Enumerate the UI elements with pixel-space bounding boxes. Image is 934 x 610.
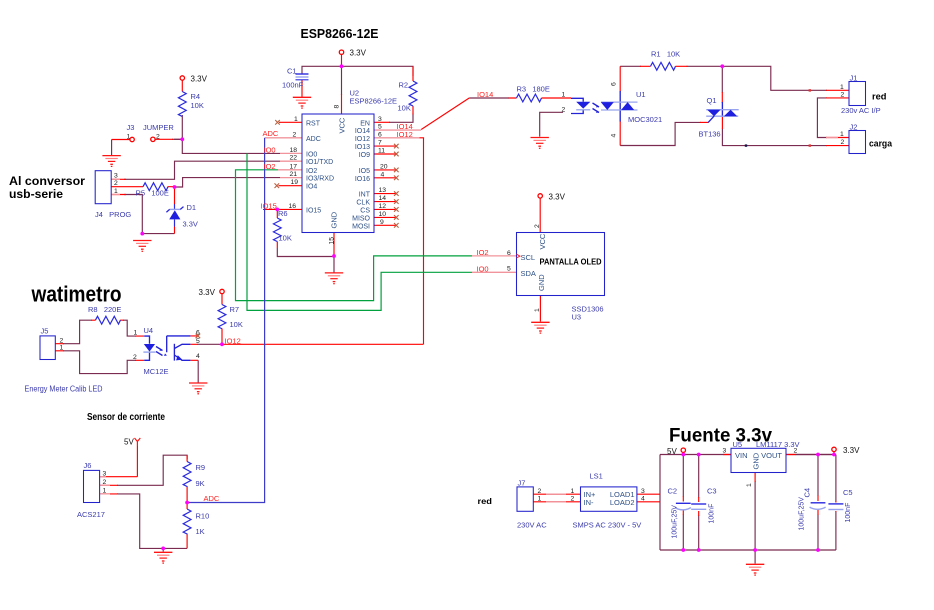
svg-text:IO1/TXD: IO1/TXD xyxy=(306,159,333,166)
svg-text:IO15: IO15 xyxy=(306,207,321,214)
svg-text:100uF,25V: 100uF,25V xyxy=(799,497,806,531)
svg-text:5: 5 xyxy=(378,124,382,131)
svg-text:3.3V: 3.3V xyxy=(843,446,860,455)
svg-text:19: 19 xyxy=(291,179,299,186)
svg-text:1K: 1K xyxy=(196,527,205,536)
svg-text:R10: R10 xyxy=(196,512,210,521)
svg-text:IO2: IO2 xyxy=(264,162,276,171)
svg-text:14: 14 xyxy=(379,195,387,202)
svg-text:J4 PROG: J4 PROG xyxy=(95,210,131,219)
svg-text:3.3V: 3.3V xyxy=(183,220,198,229)
svg-text:4: 4 xyxy=(611,134,618,138)
svg-text:IN-: IN- xyxy=(584,498,595,507)
svg-text:1: 1 xyxy=(114,188,118,195)
svg-text:100nF: 100nF xyxy=(845,503,852,523)
svg-text:MOSI: MOSI xyxy=(352,223,370,230)
svg-text:red: red xyxy=(872,92,887,103)
svg-text:R7: R7 xyxy=(230,305,240,314)
svg-text:R3 180E: R3 180E xyxy=(517,85,550,94)
svg-text:J6: J6 xyxy=(84,461,92,470)
svg-text:ADC: ADC xyxy=(263,129,279,138)
svg-text:VOUT: VOUT xyxy=(761,451,782,460)
svg-text:C3: C3 xyxy=(707,487,717,496)
svg-text:2: 2 xyxy=(841,92,845,99)
svg-text:2: 2 xyxy=(293,131,297,138)
svg-text:11: 11 xyxy=(378,148,385,155)
svg-text:6: 6 xyxy=(378,131,382,138)
svg-text:9: 9 xyxy=(380,219,384,226)
svg-text:10K: 10K xyxy=(191,101,204,110)
svg-text:IO3/RXD: IO3/RXD xyxy=(306,176,334,183)
svg-text:watimetro: watimetro xyxy=(31,282,122,307)
svg-text:3: 3 xyxy=(114,173,118,180)
svg-text:2: 2 xyxy=(103,479,107,486)
svg-text:IO12: IO12 xyxy=(397,130,413,139)
svg-text:Al conversor: Al conversor xyxy=(9,174,85,188)
svg-text:U4: U4 xyxy=(144,326,154,335)
svg-text:2: 2 xyxy=(571,495,575,502)
svg-text:CLK: CLK xyxy=(356,200,370,207)
svg-text:1: 1 xyxy=(746,483,753,487)
svg-text:IO9: IO9 xyxy=(359,152,370,159)
svg-text:U3: U3 xyxy=(572,313,582,322)
svg-text:IO12: IO12 xyxy=(225,336,241,345)
svg-text:2: 2 xyxy=(60,337,64,344)
svg-text:6: 6 xyxy=(196,329,200,336)
svg-text:10K: 10K xyxy=(279,234,292,243)
svg-text:R5 100E: R5 100E xyxy=(136,189,169,198)
svg-text:10K: 10K xyxy=(398,104,411,113)
svg-text:1: 1 xyxy=(840,131,844,138)
svg-text:IO15: IO15 xyxy=(261,202,277,211)
svg-text:1: 1 xyxy=(562,91,566,98)
svg-text:Energy Meter Calib LED: Energy Meter Calib LED xyxy=(25,385,103,394)
svg-text:J1: J1 xyxy=(850,74,858,83)
svg-text:1: 1 xyxy=(60,345,64,352)
svg-text:2: 2 xyxy=(133,354,137,361)
svg-text:230V AC: 230V AC xyxy=(517,521,547,530)
svg-text:CS: CS xyxy=(360,207,370,214)
svg-text:ADC: ADC xyxy=(306,136,321,143)
svg-text:2: 2 xyxy=(114,180,118,187)
svg-text:MOC3021: MOC3021 xyxy=(628,115,662,124)
svg-text:carga: carga xyxy=(869,139,893,150)
svg-text:2: 2 xyxy=(841,139,845,146)
svg-text:8: 8 xyxy=(334,105,341,109)
svg-text:GND: GND xyxy=(537,274,546,291)
svg-text:RST: RST xyxy=(306,120,321,127)
svg-text:C1: C1 xyxy=(287,67,297,76)
svg-text:IO13: IO13 xyxy=(355,144,370,151)
svg-text:R6: R6 xyxy=(278,209,288,218)
svg-text:2: 2 xyxy=(562,106,566,113)
svg-text:IO4: IO4 xyxy=(306,184,317,191)
svg-text:6: 6 xyxy=(507,250,511,257)
svg-text:1: 1 xyxy=(840,84,844,91)
svg-text:IO0: IO0 xyxy=(477,264,489,273)
svg-text:100nF: 100nF xyxy=(282,81,304,90)
svg-text:Sensor de corriente: Sensor de corriente xyxy=(87,411,165,423)
svg-text:C4: C4 xyxy=(803,488,812,498)
svg-text:7: 7 xyxy=(378,140,382,147)
svg-text:4: 4 xyxy=(196,353,200,360)
svg-text:ESP8266-12E: ESP8266-12E xyxy=(350,97,398,106)
svg-text:PANTALLA OLED: PANTALLA OLED xyxy=(540,256,602,266)
svg-text:1: 1 xyxy=(127,133,131,140)
svg-text:3.3V: 3.3V xyxy=(199,288,216,297)
svg-text:VCC: VCC xyxy=(538,233,547,249)
svg-text:230v AC I/P: 230v AC I/P xyxy=(841,106,881,115)
svg-text:J5: J5 xyxy=(41,327,49,336)
svg-text:ESP8266-12E: ESP8266-12E xyxy=(301,27,379,41)
svg-text:1: 1 xyxy=(134,330,138,337)
svg-text:D1: D1 xyxy=(187,203,197,212)
svg-text:JUMPER: JUMPER xyxy=(143,123,174,132)
svg-text:IO16: IO16 xyxy=(355,176,370,183)
svg-text:18: 18 xyxy=(290,147,298,154)
svg-text:R9: R9 xyxy=(196,463,206,472)
svg-text:SCL: SCL xyxy=(521,253,536,262)
svg-text:5: 5 xyxy=(196,338,200,345)
svg-text:2: 2 xyxy=(534,224,541,228)
svg-text:R8 220E: R8 220E xyxy=(88,305,121,314)
svg-text:LM1117 3.3V: LM1117 3.3V xyxy=(756,440,800,449)
svg-text:IO2: IO2 xyxy=(306,168,317,175)
svg-text:3: 3 xyxy=(103,470,107,477)
svg-text:3.3V: 3.3V xyxy=(350,49,367,58)
svg-text:IO0: IO0 xyxy=(306,151,317,158)
svg-text:R2: R2 xyxy=(399,81,409,90)
svg-text:J3: J3 xyxy=(127,123,135,132)
svg-text:1: 1 xyxy=(538,495,542,502)
svg-text:2: 2 xyxy=(156,133,160,140)
svg-text:3: 3 xyxy=(641,488,645,495)
svg-text:22: 22 xyxy=(290,155,298,162)
svg-text:5V: 5V xyxy=(124,438,134,447)
svg-text:3: 3 xyxy=(723,448,727,455)
svg-text:1: 1 xyxy=(103,488,107,495)
svg-text:R4: R4 xyxy=(191,92,201,101)
svg-text:BT136: BT136 xyxy=(699,130,721,139)
svg-text:100uF,25V: 100uF,25V xyxy=(672,505,679,539)
svg-text:ADC: ADC xyxy=(204,494,220,503)
svg-text:9K: 9K xyxy=(196,479,205,488)
svg-text:U5: U5 xyxy=(733,440,743,449)
svg-text:MC12E: MC12E xyxy=(144,367,169,376)
svg-text:6: 6 xyxy=(611,82,618,86)
svg-text:EN: EN xyxy=(360,120,370,127)
svg-text:17: 17 xyxy=(290,163,298,170)
svg-text:J2: J2 xyxy=(850,123,858,132)
svg-text:GND: GND xyxy=(330,211,339,228)
svg-text:IO0: IO0 xyxy=(264,145,276,154)
svg-text:INT: INT xyxy=(359,192,371,199)
svg-text:IO14: IO14 xyxy=(355,128,370,135)
svg-text:13: 13 xyxy=(379,187,387,194)
svg-text:VIN: VIN xyxy=(735,451,748,460)
svg-text:SMPS AC 230V - 5V: SMPS AC 230V - 5V xyxy=(573,521,642,530)
svg-text:C5: C5 xyxy=(843,488,853,497)
svg-text:5V: 5V xyxy=(667,447,677,456)
svg-text:2: 2 xyxy=(538,488,542,495)
svg-text:J7: J7 xyxy=(518,479,526,488)
svg-text:ACS217: ACS217 xyxy=(77,510,105,519)
svg-text:1: 1 xyxy=(534,308,541,312)
svg-text:C2: C2 xyxy=(668,487,678,496)
svg-text:12: 12 xyxy=(379,203,387,210)
svg-text:3.3V: 3.3V xyxy=(191,75,208,84)
svg-text:SDA: SDA xyxy=(521,269,536,278)
svg-text:IO2: IO2 xyxy=(477,248,489,257)
svg-text:100nF: 100nF xyxy=(709,504,716,524)
svg-text:GND: GND xyxy=(751,452,760,469)
svg-text:10: 10 xyxy=(379,211,387,218)
svg-text:3.3V: 3.3V xyxy=(549,193,566,202)
svg-text:usb-serie: usb-serie xyxy=(9,187,63,201)
svg-text:IO14: IO14 xyxy=(477,90,493,99)
svg-text:21: 21 xyxy=(290,171,298,178)
svg-text:MISO: MISO xyxy=(352,215,370,222)
svg-text:1: 1 xyxy=(294,116,298,123)
svg-text:R1 10K: R1 10K xyxy=(651,50,680,59)
svg-text:LOAD2: LOAD2 xyxy=(610,498,635,507)
svg-text:Q1: Q1 xyxy=(707,96,717,105)
svg-text:U1: U1 xyxy=(636,90,646,99)
svg-text:20: 20 xyxy=(380,163,388,170)
svg-text:10K: 10K xyxy=(230,320,243,329)
svg-text:IO5: IO5 xyxy=(359,168,370,175)
svg-text:15: 15 xyxy=(329,237,336,245)
svg-text:1: 1 xyxy=(571,488,575,495)
svg-text:3: 3 xyxy=(378,116,382,123)
svg-text:red: red xyxy=(478,496,493,506)
svg-text:LS1: LS1 xyxy=(590,472,603,481)
svg-text:VCC: VCC xyxy=(338,117,347,133)
svg-text:5: 5 xyxy=(507,266,511,273)
svg-text:4: 4 xyxy=(381,171,385,178)
svg-text:4: 4 xyxy=(641,495,645,502)
svg-text:IO12: IO12 xyxy=(355,136,370,143)
svg-text:16: 16 xyxy=(289,203,297,210)
